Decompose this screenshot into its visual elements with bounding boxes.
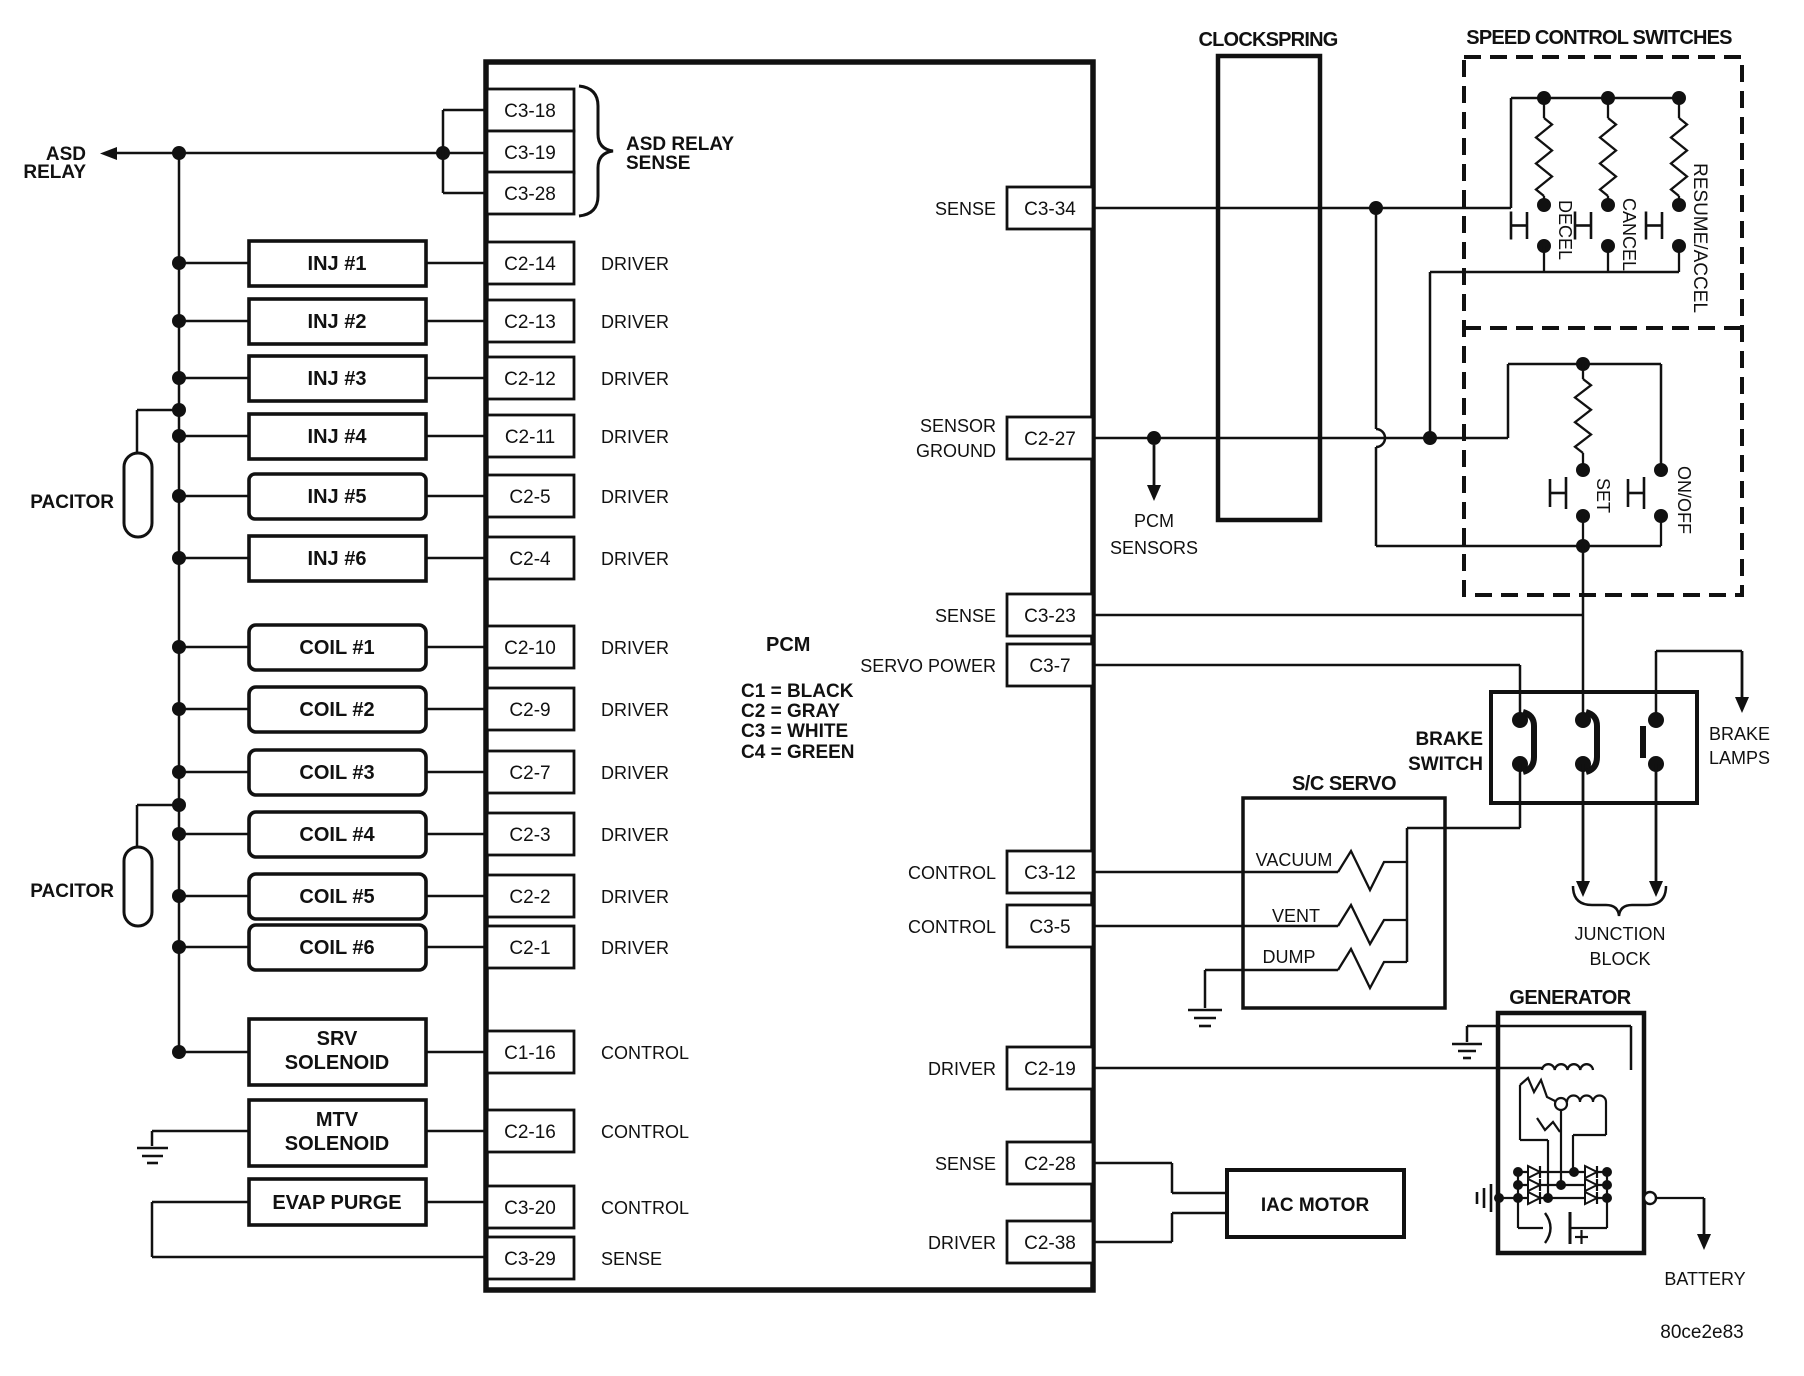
svg-text:INJ #4: INJ #4 bbox=[308, 426, 368, 448]
svg-text:VACUUM: VACUUM bbox=[1256, 850, 1333, 870]
svg-text:GROUND: GROUND bbox=[916, 441, 996, 461]
svg-text:CONTROL: CONTROL bbox=[908, 863, 996, 883]
svg-text:C4 = GREEN: C4 = GREEN bbox=[741, 742, 855, 763]
svg-text:C2-1: C2-1 bbox=[509, 938, 550, 959]
svg-text:C2-19: C2-19 bbox=[1024, 1059, 1076, 1080]
svg-text:VENT: VENT bbox=[1272, 906, 1320, 926]
svg-text:C3-7: C3-7 bbox=[1029, 656, 1070, 677]
svg-text:PACITOR: PACITOR bbox=[30, 492, 114, 513]
svg-text:C2-14: C2-14 bbox=[504, 254, 556, 275]
svg-text:C2-4: C2-4 bbox=[509, 549, 551, 570]
svg-text:C3-34: C3-34 bbox=[1024, 199, 1076, 220]
svg-text:C2-27: C2-27 bbox=[1024, 429, 1076, 450]
svg-text:CLOCKSPRING: CLOCKSPRING bbox=[1199, 29, 1338, 51]
svg-text:DRIVER: DRIVER bbox=[601, 700, 669, 720]
svg-text:DRIVER: DRIVER bbox=[601, 254, 669, 274]
svg-text:BRAKE: BRAKE bbox=[1709, 724, 1770, 744]
svg-text:CANCEL: CANCEL bbox=[1619, 198, 1639, 271]
svg-text:SENSE: SENSE bbox=[935, 199, 996, 219]
svg-text:C2-9: C2-9 bbox=[509, 700, 550, 721]
svg-text:DRIVER: DRIVER bbox=[928, 1059, 996, 1079]
svg-text:C3-5: C3-5 bbox=[1029, 917, 1070, 938]
svg-text:SENSE: SENSE bbox=[935, 1154, 996, 1174]
svg-text:INJ #6: INJ #6 bbox=[308, 548, 367, 570]
svg-text:MTV: MTV bbox=[316, 1109, 359, 1131]
svg-text:DRIVER: DRIVER bbox=[601, 825, 669, 845]
svg-text:SENSE: SENSE bbox=[626, 153, 690, 174]
svg-text:DRIVER: DRIVER bbox=[601, 763, 669, 783]
svg-text:SENSE: SENSE bbox=[935, 606, 996, 626]
svg-text:DRIVER: DRIVER bbox=[601, 938, 669, 958]
svg-text:C2-38: C2-38 bbox=[1024, 1233, 1076, 1254]
svg-text:SOLENOID: SOLENOID bbox=[285, 1052, 389, 1074]
svg-text:C3-23: C3-23 bbox=[1024, 606, 1076, 627]
svg-text:C2-10: C2-10 bbox=[504, 638, 556, 659]
svg-text:SERVO POWER: SERVO POWER bbox=[860, 656, 996, 676]
svg-text:COIL #4: COIL #4 bbox=[299, 824, 375, 846]
svg-text:C2-16: C2-16 bbox=[504, 1122, 556, 1143]
svg-text:SRV: SRV bbox=[317, 1028, 358, 1050]
svg-text:SET: SET bbox=[1593, 478, 1613, 513]
svg-text:SWITCH: SWITCH bbox=[1408, 754, 1483, 775]
svg-text:PCM: PCM bbox=[766, 634, 810, 656]
svg-text:C3-28: C3-28 bbox=[504, 184, 556, 205]
svg-text:DRIVER: DRIVER bbox=[601, 487, 669, 507]
svg-text:SENSOR: SENSOR bbox=[920, 416, 996, 436]
svg-text:C2-28: C2-28 bbox=[1024, 1154, 1076, 1175]
svg-text:RESUME/ACCEL: RESUME/ACCEL bbox=[1689, 163, 1710, 313]
svg-text:PCM: PCM bbox=[1134, 511, 1174, 531]
svg-text:C2-3: C2-3 bbox=[509, 825, 550, 846]
svg-text:DRIVER: DRIVER bbox=[601, 369, 669, 389]
svg-text:INJ #3: INJ #3 bbox=[308, 368, 367, 390]
svg-text:PACITOR: PACITOR bbox=[30, 881, 114, 902]
svg-text:COIL #5: COIL #5 bbox=[299, 886, 374, 908]
svg-text:DRIVER: DRIVER bbox=[601, 312, 669, 332]
svg-text:C2-12: C2-12 bbox=[504, 369, 556, 390]
svg-text:DRIVER: DRIVER bbox=[601, 549, 669, 569]
svg-text:GENERATOR: GENERATOR bbox=[1509, 987, 1631, 1009]
svg-text:CONTROL: CONTROL bbox=[908, 917, 996, 937]
svg-text:DRIVER: DRIVER bbox=[601, 638, 669, 658]
svg-text:DECEL: DECEL bbox=[1555, 200, 1575, 260]
svg-text:C3-20: C3-20 bbox=[504, 1198, 556, 1219]
svg-text:C1 = BLACK: C1 = BLACK bbox=[741, 681, 854, 702]
svg-text:RELAY: RELAY bbox=[23, 162, 86, 183]
svg-text:80ce2e83: 80ce2e83 bbox=[1660, 1322, 1743, 1343]
svg-text:INJ #2: INJ #2 bbox=[308, 311, 367, 333]
svg-text:ON/OFF: ON/OFF bbox=[1674, 466, 1694, 534]
svg-text:C3-19: C3-19 bbox=[504, 143, 556, 164]
svg-text:C2-5: C2-5 bbox=[509, 487, 550, 508]
svg-text:CONTROL: CONTROL bbox=[601, 1122, 689, 1142]
svg-text:C2-7: C2-7 bbox=[509, 763, 550, 784]
svg-text:C3 = WHITE: C3 = WHITE bbox=[741, 721, 848, 742]
svg-text:C3-12: C3-12 bbox=[1024, 863, 1076, 884]
svg-text:C2-11: C2-11 bbox=[505, 427, 555, 448]
svg-text:C2-13: C2-13 bbox=[504, 312, 556, 333]
svg-text:BRAKE: BRAKE bbox=[1415, 729, 1483, 750]
svg-text:C3-18: C3-18 bbox=[504, 101, 556, 122]
svg-text:COIL #2: COIL #2 bbox=[299, 699, 374, 721]
svg-text:DRIVER: DRIVER bbox=[601, 887, 669, 907]
svg-text:EVAP PURGE: EVAP PURGE bbox=[272, 1192, 401, 1214]
svg-text:SOLENOID: SOLENOID bbox=[285, 1133, 389, 1155]
svg-text:JUNCTION: JUNCTION bbox=[1575, 924, 1666, 944]
svg-text:DRIVER: DRIVER bbox=[601, 427, 669, 447]
svg-text:DRIVER: DRIVER bbox=[928, 1233, 996, 1253]
svg-text:BLOCK: BLOCK bbox=[1589, 949, 1650, 969]
svg-text:C1-16: C1-16 bbox=[504, 1043, 556, 1064]
svg-text:LAMPS: LAMPS bbox=[1709, 748, 1770, 768]
svg-text:C2-2: C2-2 bbox=[509, 887, 550, 908]
svg-text:BATTERY: BATTERY bbox=[1664, 1269, 1745, 1289]
svg-text:INJ #5: INJ #5 bbox=[308, 486, 367, 508]
svg-text:CONTROL: CONTROL bbox=[601, 1043, 689, 1063]
svg-text:C2 = GRAY: C2 = GRAY bbox=[741, 701, 840, 722]
svg-text:INJ #1: INJ #1 bbox=[308, 253, 367, 275]
svg-text:SPEED CONTROL SWITCHES: SPEED CONTROL SWITCHES bbox=[1466, 27, 1732, 49]
svg-text:COIL #3: COIL #3 bbox=[299, 762, 374, 784]
svg-text:C3-29: C3-29 bbox=[504, 1249, 556, 1270]
svg-text:SENSE: SENSE bbox=[601, 1249, 662, 1269]
svg-text:CONTROL: CONTROL bbox=[601, 1198, 689, 1218]
svg-text:COIL #6: COIL #6 bbox=[299, 937, 374, 959]
svg-text:S/C SERVO: S/C SERVO bbox=[1292, 773, 1396, 795]
svg-text:DUMP: DUMP bbox=[1263, 947, 1316, 967]
svg-text:ASD RELAY: ASD RELAY bbox=[626, 134, 734, 155]
svg-text:SENSORS: SENSORS bbox=[1110, 538, 1198, 558]
svg-text:COIL #1: COIL #1 bbox=[299, 637, 374, 659]
svg-text:IAC MOTOR: IAC MOTOR bbox=[1261, 1195, 1370, 1216]
